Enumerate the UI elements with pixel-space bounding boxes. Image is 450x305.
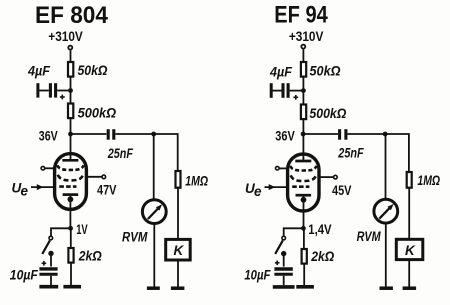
junction cap 4uF right	[301, 88, 306, 93]
wire cathode to node 1.4V	[303, 197, 305, 229]
terminal g3	[41, 166, 45, 170]
resistor 1MOhm right	[407, 172, 412, 188]
svg-text:1MΩ: 1MΩ	[185, 173, 208, 188]
svg-text:45V: 45V	[332, 182, 352, 198]
box K	[166, 239, 191, 260]
svg-text:1,4V: 1,4V	[308, 221, 332, 237]
junction cap 4uF / divider	[68, 88, 73, 93]
wire node to meter right	[385, 134, 387, 199]
ground meter branch right	[380, 286, 393, 290]
svg-text:36V: 36V	[39, 127, 58, 143]
wire 1M to K box	[177, 189, 179, 240]
wire R 50k to R 500k right	[302, 78, 304, 105]
switch contact top	[49, 236, 53, 240]
wire terminal to R 50k right	[302, 49, 304, 62]
svg-text:500kΩ: 500kΩ	[309, 106, 346, 121]
grid g1 control	[59, 185, 76, 188]
wire node to R 2k right	[303, 228, 305, 249]
tube V2 EF94 envelope	[288, 154, 319, 211]
ground meter branch	[147, 286, 160, 290]
svg-text:2kΩ: 2kΩ	[310, 249, 334, 264]
svg-text:EF 804: EF 804	[35, 2, 109, 29]
resistor 50kOhm right	[301, 62, 306, 77]
ground cathode resistor right	[296, 285, 314, 289]
svg-text:1V: 1V	[76, 221, 88, 237]
wire node to R 2k	[70, 228, 72, 248]
meter needle right	[379, 207, 390, 219]
wire C 25nF to meter node right	[348, 133, 386, 135]
wire g2 lead	[85, 176, 102, 178]
capacitor C 4uF electrolytic	[38, 83, 69, 99]
wire Ue input lead	[31, 186, 56, 188]
svg-text:10µF: 10µF	[10, 267, 39, 282]
plus mark C 10uF right	[275, 261, 280, 266]
wire R 500k to anode	[70, 119, 72, 161]
svg-text:25nF: 25nF	[337, 146, 364, 161]
svg-text:10µF: 10µF	[244, 267, 271, 282]
svg-text:4µF: 4µF	[27, 64, 51, 79]
wire meter to ground right	[385, 223, 387, 286]
resistor 2kOhm right	[302, 249, 307, 264]
svg-text:500kΩ: 500kΩ	[78, 106, 117, 121]
resistor 500kOhm right	[301, 105, 306, 120]
svg-text:K: K	[405, 243, 416, 258]
grid g2 screen	[58, 175, 83, 181]
wire K to ground	[177, 260, 179, 287]
wire switch to C 10uF	[50, 253, 52, 266]
wire C 10uF to ground right	[283, 276, 285, 285]
svg-text:1MΩ: 1MΩ	[417, 173, 440, 188]
capacitor C 25nF right	[340, 129, 346, 140]
svg-text:K: K	[174, 243, 185, 258]
svg-text:RVM: RVM	[357, 229, 382, 244]
cathode dot right	[301, 197, 307, 203]
wire 36V to C 25nF	[71, 133, 107, 135]
grid g2 screen right	[291, 175, 316, 181]
svg-text:50kΩ: 50kΩ	[310, 64, 341, 79]
switch blade	[42, 240, 50, 254]
switch contact top right	[282, 236, 286, 240]
switch contact bottom	[48, 251, 53, 256]
plus mark C 10uF	[42, 261, 47, 266]
meter RVM circle	[142, 200, 166, 224]
grid g1 control right	[292, 185, 309, 188]
wire 1M to K box right	[408, 188, 410, 240]
wire R 50k to R 500k	[70, 78, 72, 104]
meter needle	[148, 208, 159, 220]
resistor 500kOhm	[68, 104, 73, 119]
wire node 1.4V to switch right	[284, 228, 304, 236]
ground C 10uF	[39, 285, 58, 289]
wire node to meter	[153, 134, 155, 199]
wire C 10uF to ground	[50, 276, 52, 285]
wire g2 lead right	[318, 176, 334, 178]
node 36V	[68, 132, 73, 137]
wire meter to ground	[153, 224, 155, 287]
wire cathode to node 1V	[69, 196, 71, 228]
wire Ue input lead right	[265, 186, 290, 188]
ground cathode resistor	[63, 285, 81, 289]
cathode right	[296, 194, 312, 197]
resistor 2kOhm	[68, 248, 73, 263]
switch blade right	[275, 240, 283, 254]
node meter branch right	[383, 132, 388, 137]
terminal g2 45V right	[334, 175, 338, 179]
svg-text:2kΩ: 2kΩ	[78, 249, 102, 264]
svg-text:+310V: +310V	[48, 28, 83, 44]
wire K to ground right	[408, 260, 410, 287]
svg-text:36V: 36V	[275, 128, 295, 144]
wire C 25nF to meter node	[115, 133, 153, 135]
arrow Ue right	[269, 184, 276, 190]
meter RVM circle right	[374, 199, 398, 223]
svg-text:50kΩ: 50kΩ	[78, 63, 108, 78]
svg-text:+310V: +310V	[289, 28, 324, 44]
capacitor C 4uF electrolytic right	[271, 83, 301, 100]
anode plate	[62, 159, 78, 162]
node 1.4V	[301, 226, 306, 231]
capacitor C 10uF electrolytic	[39, 269, 57, 274]
terminal g2 47V	[102, 175, 106, 179]
node meter branch	[151, 132, 156, 137]
svg-text:4µF: 4µF	[269, 65, 293, 80]
ground K branch right	[403, 286, 417, 290]
terminal g3 right	[276, 166, 280, 170]
svg-text:e: e	[21, 184, 29, 199]
wire R 2k to ground right	[303, 264, 305, 285]
ground C 10uF right	[273, 285, 295, 289]
wire switch to C 10uF right	[283, 254, 285, 267]
arrow Ue	[37, 184, 44, 190]
wire node to corner 1M branch	[154, 134, 178, 171]
svg-text:25nF: 25nF	[107, 146, 134, 161]
svg-text:RVM: RVM	[122, 229, 148, 244]
tube V1 EF804 envelope	[55, 154, 87, 210]
wire R 2k to ground	[70, 263, 72, 285]
wire terminal to R 50k	[70, 50, 72, 62]
anode plate right	[295, 160, 311, 163]
box K right	[396, 239, 423, 259]
wire node 1V to switch	[51, 228, 71, 236]
cathode	[63, 193, 79, 196]
grid g3 suppressor right	[290, 166, 316, 171]
resistor 50kOhm	[68, 62, 73, 77]
ground K branch	[171, 286, 185, 290]
svg-text:e: e	[254, 184, 262, 199]
wire 36V to C 25nF right	[303, 133, 338, 135]
capacitor C 10uF electrolytic right	[274, 269, 292, 274]
meter needle head	[156, 204, 162, 210]
terminal +310V	[68, 46, 72, 50]
terminal +310V right	[301, 45, 305, 49]
meter needle head right	[387, 204, 393, 210]
wire R 500k to anode right	[302, 120, 304, 162]
switch contact bottom right	[281, 251, 286, 256]
svg-text:EF 94: EF 94	[274, 2, 328, 29]
wire g3 lead right	[279, 167, 289, 169]
cathode dot	[68, 196, 74, 202]
wire node to corner 1M branch right	[385, 134, 409, 172]
node 36V right	[301, 132, 306, 137]
wire g3 lead	[45, 167, 56, 169]
capacitor C 25nF	[108, 129, 114, 140]
resistor 1MOhm	[176, 171, 181, 188]
grid g3 suppressor	[57, 165, 83, 170]
svg-text:47V: 47V	[97, 182, 117, 198]
node 1V	[68, 226, 73, 231]
